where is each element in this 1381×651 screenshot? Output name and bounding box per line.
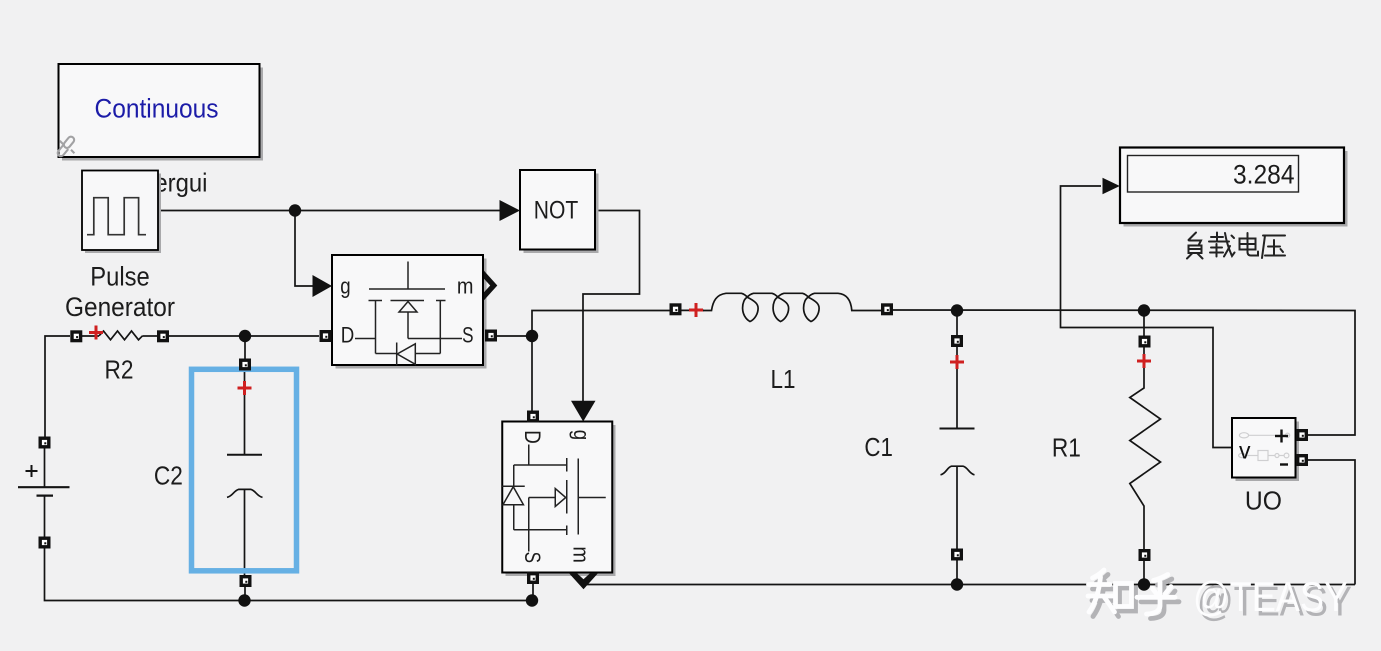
- svg-text:Pulse: Pulse: [90, 262, 150, 292]
- svg-text:D: D: [341, 323, 355, 348]
- svg-text:NOT: NOT: [534, 196, 579, 224]
- svg-text:m: m: [569, 546, 594, 563]
- svg-text:S: S: [462, 323, 473, 348]
- svg-text:C2: C2: [154, 461, 183, 491]
- svg-text:v: v: [1239, 438, 1251, 464]
- svg-text:@TEASY: @TEASY: [1193, 573, 1348, 620]
- svg-text:3.284: 3.284: [1233, 160, 1295, 190]
- svg-text:R2: R2: [105, 355, 134, 385]
- svg-text:Continuous: Continuous: [95, 94, 219, 124]
- svg-text:m: m: [457, 274, 474, 299]
- svg-text:g: g: [569, 430, 594, 440]
- svg-text:C1: C1: [864, 432, 893, 462]
- svg-text:Generator: Generator: [65, 292, 175, 322]
- svg-text:R1: R1: [1052, 433, 1081, 463]
- svg-text:L1: L1: [771, 364, 796, 394]
- svg-text:D: D: [520, 430, 545, 444]
- svg-text:UO: UO: [1245, 486, 1282, 516]
- svg-text:S: S: [520, 552, 545, 563]
- svg-text:g: g: [340, 274, 350, 299]
